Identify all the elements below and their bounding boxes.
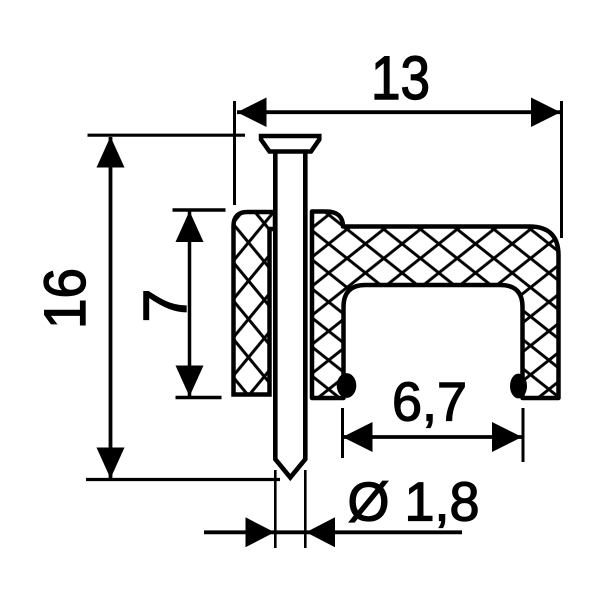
svg-text:16: 16: [33, 268, 98, 329]
dim 6,7: extension line right: [522, 408, 525, 462]
left foot: [337, 373, 357, 398]
dim 6,7: dimension line: [343, 435, 523, 439]
nail head: [261, 136, 319, 152]
dim 7: top tick: [173, 208, 226, 212]
dim 16: bottom reference line: [86, 478, 280, 481]
dim 16: dimension line: [109, 137, 113, 478]
dim 6,7: right arrow: [492, 422, 522, 452]
dim 1,8: extension line right: [304, 470, 307, 548]
svg-text:6,7: 6,7: [392, 371, 467, 433]
dim 16: bottom arrow: [97, 448, 125, 479]
dim 16: top reference line: [88, 134, 246, 137]
clip main body (hatched): [312, 212, 559, 399]
dim 13: extension line left: [233, 101, 236, 205]
dim 1,8: right arrow: [306, 517, 335, 547]
svg-text:13: 13: [371, 44, 430, 112]
nail shaft: [275, 152, 305, 478]
dim 13: right arrow: [531, 98, 561, 128]
dim 6,7: extension line left: [341, 408, 344, 458]
dim 7: bottom arrow: [176, 366, 204, 397]
right foot: [510, 374, 527, 399]
svg-text:7: 7: [131, 289, 199, 323]
dim 6,7: left arrow: [343, 422, 373, 452]
dim 13: dimension line: [237, 110, 561, 114]
svg-text:Ø 1,8: Ø 1,8: [348, 470, 480, 532]
dim 13: left arrow: [237, 98, 267, 128]
dim 1,8: leader line: [204, 530, 462, 534]
dim 7: bottom tick: [176, 396, 222, 400]
dim 1,8: extension line left: [274, 470, 277, 548]
clip left flange (hatched): [234, 212, 276, 395]
dim 16: top arrow: [97, 137, 125, 168]
dim 13: extension line right: [560, 101, 563, 238]
dim 1,8: left arrow: [246, 517, 275, 547]
dim 7: dimension line: [188, 211, 192, 397]
dim 7: top arrow: [176, 211, 204, 242]
